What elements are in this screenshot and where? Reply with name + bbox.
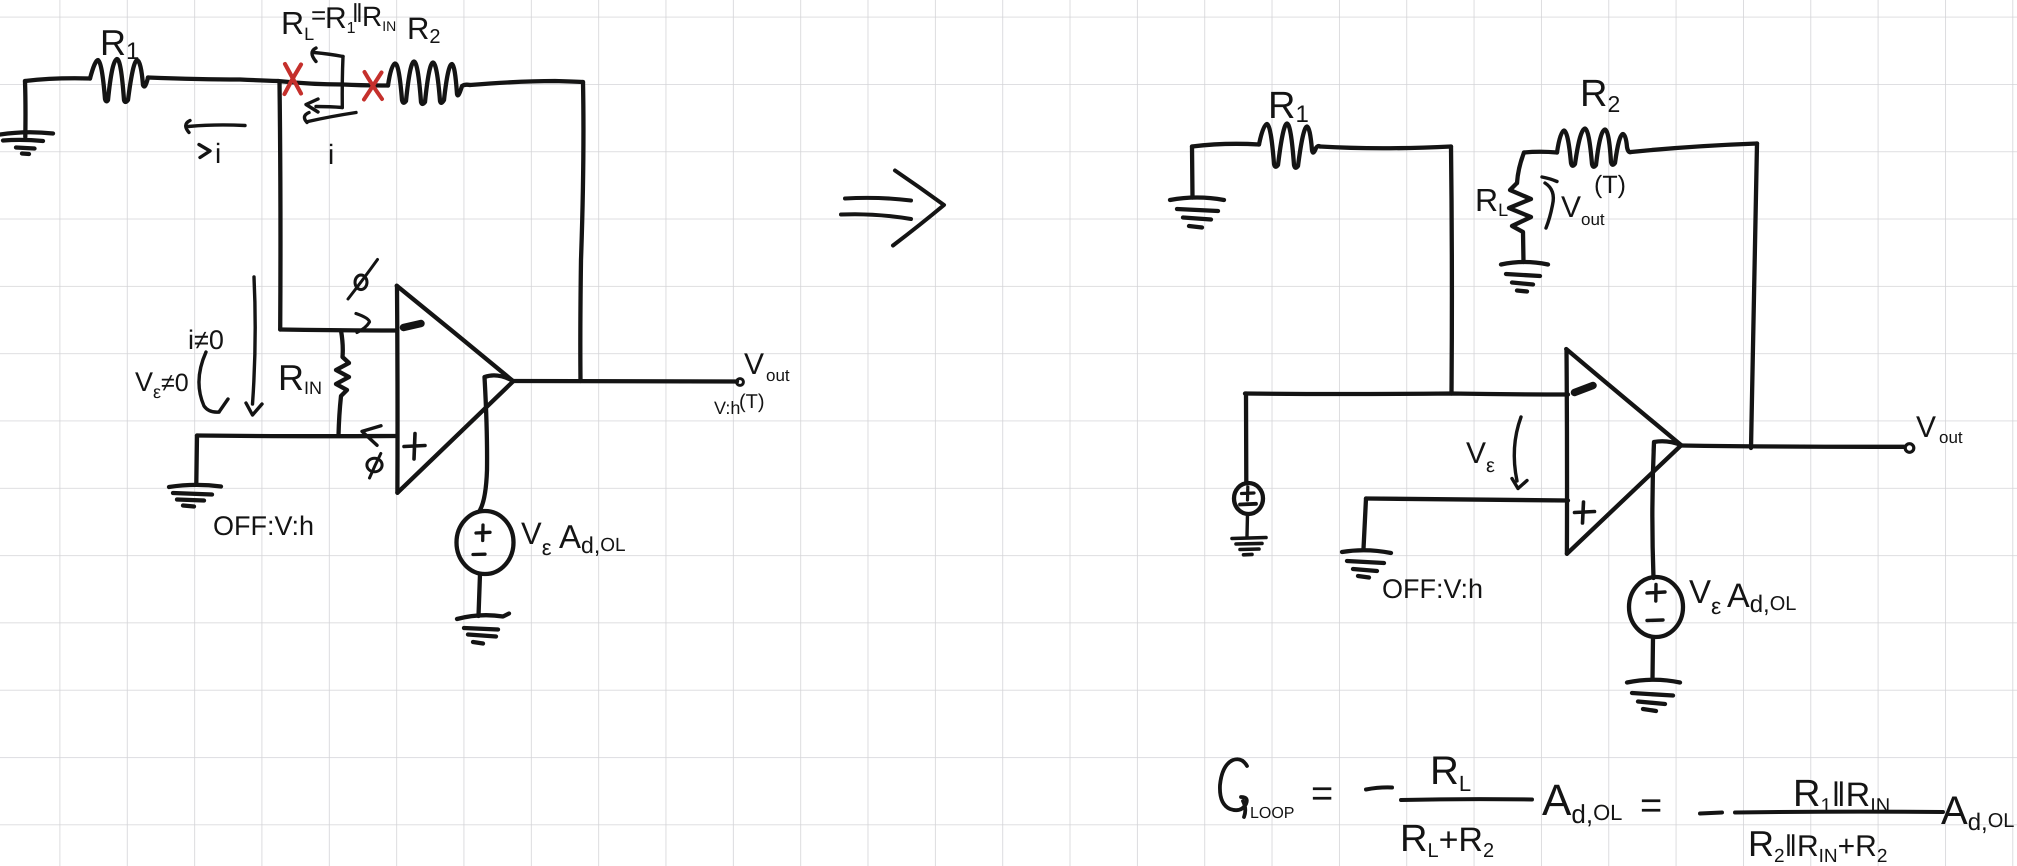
U1 plus symbol — [404, 434, 425, 460]
chevron mark on inverting wire — [356, 314, 370, 333]
annotation paren arrow — [199, 352, 228, 412]
wire inverting input horizontal (right) — [1245, 394, 1568, 395]
wire inverting input horizontal — [280, 330, 397, 331]
U1 minus symbol — [404, 324, 422, 328]
ground GND4 (right circuit input) — [1170, 147, 1224, 228]
phi mark below noninverting input — [367, 454, 382, 479]
svg-text:LOOP: LOOP — [1250, 805, 1294, 822]
resistor R1 (right) — [1259, 124, 1320, 168]
svg-text:=: = — [311, 0, 326, 30]
resistor RL (right) — [1509, 183, 1531, 262]
wire stub to GND2 — [194, 436, 199, 485]
svg-text:=: = — [1311, 773, 1333, 815]
svg-text:RL+R2: RL+R2 — [1400, 818, 1494, 862]
annotation long down arrow — [246, 277, 262, 415]
resistor R2 (right) — [1557, 129, 1631, 167]
svg-text:(T): (T) — [1594, 171, 1626, 199]
terminal Vout (right) — [1905, 444, 1914, 453]
ground GND6 (below V1) — [1232, 538, 1266, 555]
resistor R2 — [388, 62, 470, 105]
phi mark above inverting input — [348, 260, 378, 300]
op-amp U2 — [1566, 349, 1681, 554]
U2 minus symbol — [1575, 386, 1594, 393]
svg-text:Vε≠0: Vε≠0 — [135, 367, 189, 402]
wire V1 to inverting rail — [1244, 394, 1249, 484]
svg-text:OFF:V:h: OFF:V:h — [1382, 574, 1483, 604]
arrow on noninverting wire — [362, 426, 381, 446]
wire source to GND3 — [479, 574, 481, 616]
formula minus sign 1 — [1366, 787, 1392, 789]
formula fraction bar 2 — [1735, 810, 1943, 815]
wire R1' to corner — [1320, 147, 1451, 149]
svg-text:i: i — [215, 138, 221, 169]
output wire U2 — [1681, 446, 1904, 447]
output wire U1 — [513, 379, 737, 384]
ground GND5 (below RL) — [1501, 262, 1548, 292]
wire U2 to error source — [1652, 441, 1681, 578]
ground GND8 — [1627, 680, 1680, 711]
formula fraction bar 1 — [1401, 797, 1532, 802]
ground GND2 — [169, 485, 221, 507]
wire feedback vertical (right) — [1751, 144, 1757, 449]
wire R2' left connection — [1524, 150, 1557, 155]
ground GND1 top-left — [0, 81, 53, 154]
svg-text:i: i — [328, 139, 334, 170]
svg-text:V:h: V:h — [714, 398, 740, 418]
wire RL hang vertical — [1517, 153, 1524, 184]
wire noninverting input horizontal — [197, 433, 397, 438]
U2 plus symbol — [1575, 502, 1595, 523]
source Ve Ad,OL (right dependent source) — [1629, 577, 1683, 637]
wire junction vertical to inverting input — [277, 82, 282, 330]
wire GND4 to R1' — [1192, 144, 1259, 147]
wire feedback vertical to output — [580, 82, 583, 381]
hook arrow at RL — [1542, 177, 1557, 228]
ground GND7 — [1342, 550, 1391, 577]
label RL = R1||RIN — [281, 0, 396, 44]
wire GND1 to R1 — [25, 78, 90, 81]
current arrow i (left annotation) — [186, 121, 245, 158]
resistor RIN — [336, 331, 349, 436]
wire V1 to GND6 — [1245, 514, 1249, 536]
source Ve Ad,OL (left dependent source) — [457, 511, 514, 574]
resistor R1 — [90, 59, 148, 102]
wire U1 to error source — [480, 375, 513, 511]
op-amp U1 — [397, 286, 513, 493]
svg-text:=: = — [1640, 785, 1662, 827]
wire R1 to node — [148, 78, 278, 82]
formula G script glyph — [1220, 759, 1247, 817]
cross X2 (red) — [364, 72, 382, 100]
wire R2 to feedback corner — [470, 81, 583, 85]
wire corner vertical to inverting input (right) — [1449, 147, 1454, 394]
label Ve Ad,OL (left) — [521, 516, 626, 560]
formula minus sign 2 — [1700, 813, 1722, 814]
ground GND3 — [457, 614, 509, 644]
current arrow i (lower, near bracket) — [304, 113, 356, 123]
curly U-turn arrow at RL insertion — [306, 48, 343, 112]
label Ve Ad,OL (right) — [1689, 573, 1796, 619]
svg-text:R2‖RIN+R2: R2‖RIN+R2 — [1748, 823, 1887, 866]
wire noninverting input horizontal (right) — [1366, 499, 1568, 501]
cross X1 (red) — [285, 64, 302, 94]
wire source to GND8 — [1650, 637, 1655, 679]
svg-text:OFF:V:h: OFF:V:h — [213, 511, 314, 541]
wire R2' to feedback corner — [1631, 144, 1757, 153]
big implies arrow — [841, 171, 944, 246]
wire node through crosses to R2 — [278, 81, 388, 86]
formula Gloop — [1250, 749, 2014, 866]
wire stub to GND7 — [1364, 499, 1367, 550]
svg-text:(T): (T) — [739, 391, 765, 413]
paren arrow Ve (right) — [1512, 417, 1527, 489]
source V1 (input +- source) — [1234, 483, 1263, 514]
terminal Vout (left) — [737, 379, 744, 386]
